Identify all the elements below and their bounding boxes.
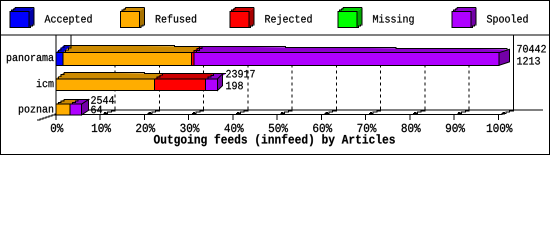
legend separator line [0, 34, 550, 36]
bar panorama right side face [499, 49, 510, 65]
legend cube Missing [338, 8, 362, 12]
x axis front line [56, 114, 499, 116]
value labels panorama [517, 45, 546, 53]
bar icm top faces [56, 73, 165, 79]
x axis tick 100% [498, 107, 513, 121]
bar poznan top faces [56, 99, 81, 104]
legend cube Rejected [230, 8, 254, 12]
x axis back line [67, 109, 544, 111]
outer border [1, 1, 550, 155]
x axis tick 60% [321, 107, 336, 121]
bar icm right side face [218, 74, 223, 91]
x axis corner diagonal [37, 110, 67, 120]
bar icm purple front face [206, 79, 218, 91]
x axis tick 80% [410, 107, 425, 121]
legend label Accepted [45, 14, 92, 24]
value labels poznan [91, 96, 114, 104]
legend cube Accepted [10, 8, 34, 12]
gridline 90% dashed [468, 65, 470, 111]
x axis tick 40% [233, 107, 248, 121]
bar panorama purple front face [194, 53, 499, 66]
bar panorama top faces [56, 45, 74, 52]
gridline 70% dashed [380, 65, 382, 111]
x axis tick 50% [277, 107, 292, 121]
gridline 100% solid wall [512, 35, 514, 110]
gridline 50% dashed [291, 65, 293, 111]
bar panorama [56, 45, 510, 65]
x label 40% [225, 124, 244, 132]
x label 30% [180, 124, 199, 132]
row label panorama [7, 55, 54, 63]
gridline 40% dashed [247, 65, 249, 111]
title [154, 134, 395, 146]
gridline 20% dashed [158, 65, 160, 111]
row label poznan [19, 107, 53, 115]
gridline 30% dashed [203, 65, 205, 111]
bar poznan purple front face [70, 104, 82, 115]
bar icm orange front face [56, 79, 155, 91]
legend label Spooled [487, 14, 528, 24]
legend label Rejected [265, 14, 311, 24]
x axis tick 90% [454, 107, 469, 121]
bar panorama orange front face [63, 53, 192, 66]
0% back tick below separator [70, 35, 72, 46]
x label 20% [136, 124, 155, 132]
gridline 80% dashed [424, 65, 426, 111]
bar icm red front face [155, 79, 206, 91]
x label 50% [269, 124, 288, 132]
x label 90% [446, 124, 465, 132]
legend label Missing [373, 14, 414, 24]
legend cube Spooled [452, 8, 476, 12]
legend label Refused [156, 14, 196, 22]
gridline 60% dashed [335, 65, 337, 111]
bar poznan [56, 99, 90, 115]
x axis tick 70% [366, 107, 381, 121]
x label 80% [402, 124, 421, 132]
row label icm [37, 79, 54, 87]
x axis tick 20% [144, 107, 159, 121]
x label 70% [358, 124, 377, 132]
x axis tick 10% [100, 107, 115, 121]
x axis tick 0% [56, 107, 71, 121]
x label 60% [313, 124, 332, 132]
y axis line [55, 35, 57, 119]
bar panorama red front face [192, 53, 195, 66]
bar poznan orange front face [56, 104, 70, 115]
bar icm [56, 73, 226, 91]
x label 100% [487, 124, 513, 132]
x label 10% [92, 124, 111, 132]
x axis tick 30% [189, 107, 204, 121]
gridline 10% dashed [114, 65, 116, 111]
bar poznan right side face [82, 100, 89, 115]
value labels icm [226, 70, 255, 78]
x label 0% [51, 124, 64, 132]
bar panorama blue front face [56, 53, 63, 66]
legend cube Refused [121, 8, 145, 12]
